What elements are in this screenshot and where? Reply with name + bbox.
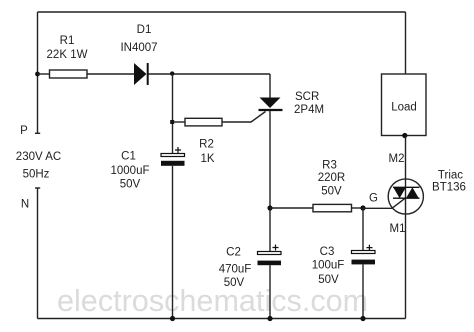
svg-text:50V: 50V [120,179,141,191]
wire R3 left lead [270,207,313,209]
svg-text:R2: R2 [199,139,214,151]
wire R3 right lead [352,207,364,209]
node junction P/R1 [35,72,40,77]
wire N riser [37,188,39,319]
svg-text:C1: C1 [121,151,136,163]
wire R2 left lead [173,121,186,123]
resistor R2 [185,118,222,126]
node junction Load bottom [402,133,407,138]
svg-text:BT136: BT136 [432,182,466,194]
capacitor C3 [352,245,376,265]
svg-text:1K: 1K [200,153,214,165]
wire bottom rail [38,318,406,320]
wire C1 bottom lead [172,166,174,319]
load box [382,74,427,136]
terminal N tick [35,187,40,189]
terminal P tick [35,132,40,134]
SCR 2P4M [259,98,283,111]
svg-text:Load: Load [391,102,417,114]
wire C3 top lead [362,208,364,251]
node junction C3/bottom [360,316,365,321]
svg-text:220R: 220R [318,172,346,184]
svg-text:N: N [21,199,29,211]
svg-text:50V: 50V [224,277,245,289]
capacitor C2 [258,245,282,266]
svg-text:1000uF: 1000uF [110,165,149,177]
wire triac M1 down [405,215,407,319]
wire SCR cathode down [269,110,271,252]
svg-text:50V: 50V [318,274,339,286]
svg-text:100uF: 100uF [312,260,345,272]
capacitor C1 [161,147,185,166]
wire C2 bottom lead [269,265,271,318]
wire C3 bottom lead [362,264,364,318]
svg-text:22K 1W: 22K 1W [47,49,88,61]
node junction SCR/R3/C2 [267,205,272,210]
svg-text:R3: R3 [322,160,337,172]
svg-text:2P4M: 2P4M [294,104,324,116]
wire gate to triac [363,198,406,208]
wire Load to triac M2 [405,136,407,180]
wire D1 to SCR [149,73,271,75]
svg-text:50Hz: 50Hz [23,169,50,181]
diode D1 [134,63,148,85]
svg-text:P: P [20,125,28,137]
svg-text:230V AC: 230V AC [16,151,61,163]
node junction C2/bottom [267,316,272,321]
svg-text:C3: C3 [320,246,335,258]
wire C1 top lead [172,74,174,154]
wire SCR anode lead [269,74,271,98]
triac BT136 [388,179,423,215]
svg-text:electroschematics.com: electroschematics.com [57,284,368,318]
svg-text:M1: M1 [390,223,406,235]
svg-text:D1: D1 [137,24,152,36]
svg-text:IN4007: IN4007 [120,42,157,54]
svg-text:SCR: SCR [295,91,319,103]
wire top rail [38,11,406,13]
node G junction [360,205,365,210]
node junction D1/C1 [170,71,174,75]
svg-text:Triac: Triac [438,170,463,182]
svg-text:R1: R1 [60,35,75,47]
node junction C1/bottom [170,316,175,321]
svg-text:470uF: 470uF [219,264,252,276]
svg-text:G: G [369,193,378,205]
resistor R3 [313,204,352,211]
wire R2 to SCR gate [222,112,266,123]
resistor R1 [50,70,88,78]
node junction C1/R2 [170,120,174,124]
wire R1 left lead [38,73,50,75]
wire Load top lead [405,12,407,74]
svg-text:M2: M2 [389,153,405,165]
svg-text:C2: C2 [226,247,241,259]
svg-text:50V: 50V [321,186,342,198]
wire R1 to D1 [87,73,134,75]
wire left riser P [37,12,39,133]
